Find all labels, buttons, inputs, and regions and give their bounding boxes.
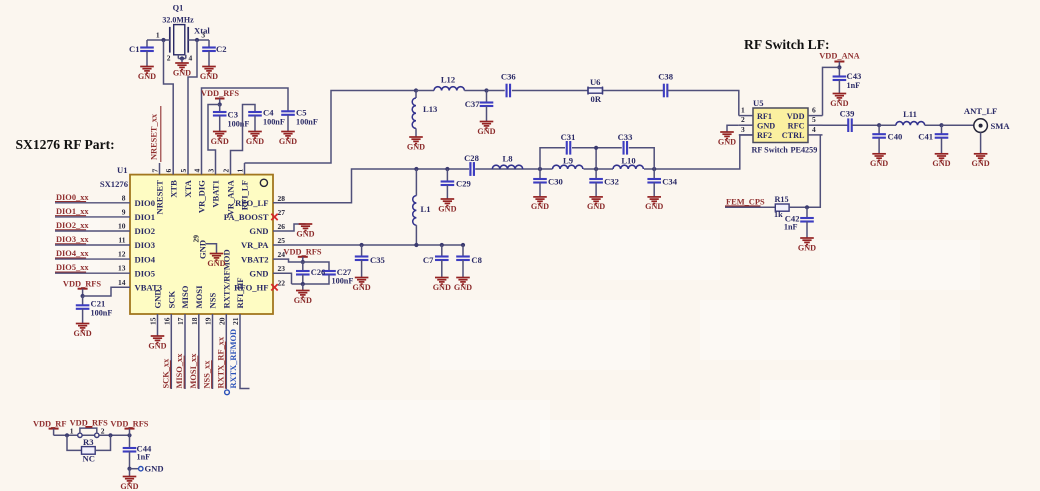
svg-text:SCK: SCK xyxy=(167,291,177,309)
svg-text:20: 20 xyxy=(217,317,226,325)
svg-text:8: 8 xyxy=(122,193,126,202)
svg-text:L9: L9 xyxy=(563,156,573,166)
svg-text:4: 4 xyxy=(193,169,202,173)
svg-text:VBAT1: VBAT1 xyxy=(211,180,221,208)
svg-text:MISO: MISO xyxy=(180,285,190,308)
svg-text:19: 19 xyxy=(204,317,213,325)
svg-text:DIO3: DIO3 xyxy=(135,240,156,250)
svg-text:3: 3 xyxy=(741,125,745,134)
svg-text:100nF: 100nF xyxy=(296,118,318,127)
svg-text:GND: GND xyxy=(454,283,472,292)
svg-text:5: 5 xyxy=(179,169,188,173)
svg-text:GND: GND xyxy=(148,341,166,350)
svg-text:GND: GND xyxy=(120,482,138,491)
svg-text:C37: C37 xyxy=(465,99,481,109)
svg-text:GND: GND xyxy=(173,68,191,77)
svg-text:VDD_ANA: VDD_ANA xyxy=(819,52,859,61)
svg-text:DIO0_xx: DIO0_xx xyxy=(56,193,89,202)
svg-text:GND: GND xyxy=(294,296,312,305)
svg-text:6: 6 xyxy=(812,106,816,115)
svg-text:VR_PA: VR_PA xyxy=(241,240,269,250)
svg-text:PE4259: PE4259 xyxy=(791,146,818,155)
svg-text:XTB: XTB xyxy=(168,180,178,198)
svg-text:2: 2 xyxy=(741,115,745,124)
svg-text:C40: C40 xyxy=(888,132,903,142)
svg-text:C8: C8 xyxy=(471,255,482,265)
svg-text:MOSI_xx: MOSI_xx xyxy=(189,353,198,389)
svg-text:NSS: NSS xyxy=(208,293,218,309)
svg-text:GND: GND xyxy=(830,99,848,108)
svg-text:100nF: 100nF xyxy=(91,309,113,318)
svg-text:GND: GND xyxy=(433,283,451,292)
svg-text:MISO_xx: MISO_xx xyxy=(175,353,184,389)
svg-text:VBAT2: VBAT2 xyxy=(241,254,269,264)
svg-text:RFC: RFC xyxy=(788,121,805,130)
svg-text:0R: 0R xyxy=(591,94,602,104)
svg-text:GND: GND xyxy=(246,137,264,146)
svg-text:L13: L13 xyxy=(423,104,437,114)
svg-text:MOSI: MOSI xyxy=(194,285,204,309)
svg-text:C35: C35 xyxy=(370,255,385,265)
svg-text:GND: GND xyxy=(477,127,495,136)
svg-text:C4: C4 xyxy=(263,108,274,118)
svg-text:L8: L8 xyxy=(502,154,513,164)
svg-text:VDD_RFS: VDD_RFS xyxy=(110,420,148,429)
svg-text:C28: C28 xyxy=(464,153,480,163)
svg-text:SCK_xx: SCK_xx xyxy=(162,358,171,389)
svg-text:17: 17 xyxy=(176,317,185,325)
svg-text:SMA: SMA xyxy=(991,121,1011,131)
svg-text:100nF: 100nF xyxy=(332,277,354,286)
svg-text:C34: C34 xyxy=(662,177,678,187)
svg-text:11: 11 xyxy=(118,236,125,245)
svg-text:C41: C41 xyxy=(918,132,933,142)
svg-text:GND: GND xyxy=(198,240,208,259)
svg-text:L1: L1 xyxy=(421,204,431,214)
svg-text:DIO5: DIO5 xyxy=(135,268,156,278)
svg-text:GND: GND xyxy=(407,142,425,151)
svg-text:DIO2: DIO2 xyxy=(135,226,156,236)
svg-text:DIO1: DIO1 xyxy=(135,212,156,222)
svg-text:GND: GND xyxy=(645,202,663,211)
svg-text:C21: C21 xyxy=(91,299,106,309)
svg-text:2: 2 xyxy=(222,169,231,173)
svg-text:2: 2 xyxy=(101,427,105,436)
svg-text:1: 1 xyxy=(741,106,745,115)
svg-text:3: 3 xyxy=(201,31,205,40)
svg-text:DIO3_xx: DIO3_xx xyxy=(56,235,89,244)
svg-text:GND: GND xyxy=(587,202,605,211)
svg-text:GND: GND xyxy=(718,137,736,146)
svg-text:XTA: XTA xyxy=(183,179,193,197)
svg-text:GND: GND xyxy=(211,137,229,146)
svg-text:VDD_RFS: VDD_RFS xyxy=(63,280,101,289)
svg-text:R3: R3 xyxy=(83,437,94,447)
svg-text:GND: GND xyxy=(153,289,163,308)
svg-text:21: 21 xyxy=(231,317,240,325)
svg-text:GND: GND xyxy=(296,229,314,238)
svg-text:C36: C36 xyxy=(501,72,517,82)
svg-text:GND: GND xyxy=(870,159,888,168)
svg-text:C2: C2 xyxy=(216,44,227,54)
svg-text:RF Switch: RF Switch xyxy=(752,146,789,155)
svg-text:GND: GND xyxy=(798,243,816,252)
svg-text:GND: GND xyxy=(73,329,91,338)
svg-text:R15: R15 xyxy=(775,195,789,204)
svg-text:32.0MHz: 32.0MHz xyxy=(162,16,194,25)
svg-text:C39: C39 xyxy=(840,109,855,119)
svg-text:DIO0: DIO0 xyxy=(135,198,156,208)
svg-text:GND: GND xyxy=(145,464,164,474)
svg-text:GND: GND xyxy=(757,121,775,130)
svg-text:GND: GND xyxy=(531,202,549,211)
svg-text:15: 15 xyxy=(149,317,158,325)
svg-text:1: 1 xyxy=(70,427,74,436)
svg-text:C43: C43 xyxy=(847,71,862,81)
svg-text:VDD_RFS: VDD_RFS xyxy=(201,89,239,98)
svg-text:GND: GND xyxy=(249,268,268,278)
svg-text:28: 28 xyxy=(278,194,286,203)
svg-text:PA_BOOST: PA_BOOST xyxy=(224,212,269,222)
svg-text:1nF: 1nF xyxy=(784,223,798,232)
svg-text:RF2: RF2 xyxy=(757,131,772,140)
svg-text:C3: C3 xyxy=(228,110,239,120)
svg-text:18: 18 xyxy=(190,317,199,325)
svg-text:U5: U5 xyxy=(753,98,764,108)
svg-text:NSS_xx: NSS_xx xyxy=(203,360,212,389)
svg-text:L10: L10 xyxy=(621,156,635,166)
svg-text:14: 14 xyxy=(118,278,126,287)
svg-text:NRESET: NRESET xyxy=(155,180,165,215)
svg-text:RFO_LF: RFO_LF xyxy=(235,198,268,208)
svg-text:1nF: 1nF xyxy=(137,453,151,462)
svg-text:C26: C26 xyxy=(311,268,325,277)
svg-text:GND: GND xyxy=(438,204,456,213)
svg-text:VDD: VDD xyxy=(787,112,805,121)
svg-text:DIO1_xx: DIO1_xx xyxy=(56,207,89,216)
svg-text:VR_DIG: VR_DIG xyxy=(197,180,207,213)
svg-text:26: 26 xyxy=(278,222,286,231)
svg-text:23: 23 xyxy=(278,264,286,273)
svg-text:GND: GND xyxy=(249,226,268,236)
svg-text:RXTX_RF_xx: RXTX_RF_xx xyxy=(217,336,226,388)
svg-text:GND: GND xyxy=(207,259,225,268)
svg-text:GND: GND xyxy=(138,72,156,81)
svg-text:2: 2 xyxy=(167,54,171,63)
svg-text:1k: 1k xyxy=(774,210,783,219)
svg-text:L12: L12 xyxy=(441,75,455,85)
svg-text:NC: NC xyxy=(82,454,94,464)
svg-text:RFI_HF: RFI_HF xyxy=(235,277,245,308)
svg-text:GND: GND xyxy=(200,72,218,81)
svg-text:4: 4 xyxy=(189,54,193,63)
svg-text:C30: C30 xyxy=(548,177,563,187)
svg-text:1: 1 xyxy=(236,169,245,173)
svg-text:DIO4: DIO4 xyxy=(135,254,156,264)
svg-text:100nF: 100nF xyxy=(263,118,285,127)
svg-text:100nF: 100nF xyxy=(228,120,250,129)
svg-text:SX1276: SX1276 xyxy=(100,179,129,189)
svg-text:SX1276 RF Part:: SX1276 RF Part: xyxy=(16,137,115,152)
svg-text:C33: C33 xyxy=(618,132,633,142)
svg-text:NRESET_xx: NRESET_xx xyxy=(150,113,159,160)
svg-text:GND: GND xyxy=(971,159,989,168)
svg-text:RXTX_RFMOD: RXTX_RFMOD xyxy=(229,329,238,389)
svg-text:1nF: 1nF xyxy=(847,81,861,90)
svg-text:RF1: RF1 xyxy=(757,112,772,121)
svg-text:VDD_RFS: VDD_RFS xyxy=(283,248,321,257)
svg-text:13: 13 xyxy=(118,264,126,273)
svg-text:6: 6 xyxy=(164,169,173,173)
svg-text:U6: U6 xyxy=(590,77,601,87)
svg-text:C31: C31 xyxy=(561,132,576,142)
svg-text:U1: U1 xyxy=(117,165,128,175)
svg-text:DIO5_xx: DIO5_xx xyxy=(56,263,89,272)
svg-text:16: 16 xyxy=(162,317,171,325)
svg-text:DIO4_xx: DIO4_xx xyxy=(56,249,89,258)
svg-text:4: 4 xyxy=(812,125,816,134)
svg-text:22: 22 xyxy=(278,278,286,287)
svg-text:Q1: Q1 xyxy=(173,4,184,13)
svg-text:12: 12 xyxy=(118,250,126,259)
svg-text:C1: C1 xyxy=(129,44,140,54)
svg-text:ANT_LF: ANT_LF xyxy=(964,106,997,116)
svg-text:RF Switch LF:: RF Switch LF: xyxy=(744,37,830,52)
svg-text:1: 1 xyxy=(156,31,160,40)
svg-text:C38: C38 xyxy=(658,72,674,82)
svg-text:GND: GND xyxy=(932,159,950,168)
svg-text:C7: C7 xyxy=(423,255,434,265)
svg-text:GND: GND xyxy=(279,137,297,146)
svg-text:FEM_CPS: FEM_CPS xyxy=(726,198,765,207)
svg-text:27: 27 xyxy=(278,208,286,217)
svg-text:C5: C5 xyxy=(296,108,307,118)
svg-text:7: 7 xyxy=(151,169,160,173)
svg-text:DIO2_xx: DIO2_xx xyxy=(56,221,89,230)
svg-text:5: 5 xyxy=(812,115,816,124)
svg-text:25: 25 xyxy=(278,236,286,245)
svg-text:C29: C29 xyxy=(456,179,471,189)
svg-text:C32: C32 xyxy=(604,177,619,187)
svg-text:VDD_RF: VDD_RF xyxy=(33,420,67,429)
svg-text:GND: GND xyxy=(352,283,370,292)
svg-text:10: 10 xyxy=(118,222,126,231)
svg-text:CTRL: CTRL xyxy=(782,131,805,140)
svg-text:9: 9 xyxy=(122,207,126,216)
svg-text:L11: L11 xyxy=(903,109,917,119)
svg-text:3: 3 xyxy=(207,169,216,173)
